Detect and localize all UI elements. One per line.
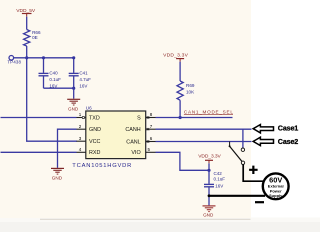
svg-text:TXD: TXD — [89, 115, 100, 121]
pin 1 TXD stub — [77, 117, 86, 119]
power port VDD_5V — [16, 8, 36, 17]
pin 7 CANH stub — [146, 128, 156, 130]
svg-text:Case2: Case2 — [278, 137, 299, 146]
svg-text:TCAN1051HGVDR: TCAN1051HGVDR — [72, 163, 131, 169]
wire TXD to left edge — [1, 117, 77, 119]
plus symbol — [249, 166, 258, 174]
arrow Case1 — [253, 125, 273, 133]
svg-text:16V: 16V — [215, 184, 223, 189]
svg-text:VDD_3.3V: VDD_3.3V — [163, 53, 189, 59]
svg-text:16V: 16V — [79, 83, 87, 88]
svg-text:10K: 10K — [186, 89, 195, 94]
wire R69 to S wire — [179, 100, 181, 117]
wire VDD_3.3V to R69 — [179, 62, 181, 81]
svg-text:C42: C42 — [214, 171, 223, 176]
svg-text:Case1: Case1 — [278, 124, 299, 133]
resistor R69 — [177, 81, 195, 100]
svg-text:C41: C41 — [79, 70, 88, 75]
svg-text:C40: C40 — [49, 70, 58, 75]
wire VDD_3.3V down to C42 — [208, 163, 210, 184]
wire cap bottom rail — [44, 87, 74, 89]
capacitor C41 — [69, 58, 91, 89]
svg-text:CANL: CANL — [126, 139, 140, 145]
pin 3 VCC stub — [77, 140, 86, 142]
svg-text:0.1uF: 0.1uF — [214, 176, 226, 181]
ground GND below pin2 — [51, 168, 64, 180]
pin 4 RXD stub — [77, 151, 86, 153]
wire VDD_5V to R66 — [26, 17, 28, 30]
net label CAN1_MODE_SEL — [184, 110, 233, 115]
pin names — [89, 115, 141, 156]
svg-text:GND: GND — [203, 212, 214, 217]
svg-text:0.1uF: 0.1uF — [49, 77, 61, 82]
minus symbol — [255, 201, 264, 203]
svg-text:VIO: VIO — [131, 150, 140, 156]
wire TP438 to caps — [14, 57, 74, 59]
wire VIO to VDD_3.3V — [156, 152, 210, 170]
svg-text:U6: U6 — [86, 106, 92, 111]
wire GND pin2 — [58, 129, 77, 168]
wire CANH — [156, 128, 252, 130]
svg-text:CAN1_MODE_SEL: CAN1_MODE_SEL — [184, 110, 233, 115]
IC U6 CAN transceiver TCAN1051 — [72, 106, 145, 169]
junction on TP438 wire — [25, 56, 28, 59]
svg-text:GND: GND — [89, 127, 101, 133]
junction VIO/VDD — [207, 169, 210, 172]
wire supply minus to GND net — [209, 195, 265, 197]
junction dots caps — [42, 56, 45, 59]
switch pole stub from CANL — [229, 142, 231, 146]
svg-text:GND: GND — [68, 106, 79, 111]
switch blade — [230, 146, 242, 161]
svg-text:RXD: RXD — [89, 150, 100, 156]
test point TP438 — [8, 56, 22, 65]
junction R69/S — [179, 116, 182, 119]
svg-text:0E: 0E — [32, 35, 38, 40]
wire C41 to ground — [73, 88, 75, 99]
switch contact (supply side) — [241, 161, 244, 164]
wire CANL — [156, 141, 252, 143]
svg-text:VCC: VCC — [89, 139, 100, 145]
capacitor C40 — [39, 58, 62, 89]
pin 8 S stub — [146, 117, 156, 119]
pin 6 CANL stub — [146, 141, 156, 143]
wire CANH to switch contact — [242, 129, 244, 148]
pin 2 GND stub — [77, 128, 86, 130]
power port VDD_3.3V (top) — [163, 53, 189, 62]
60V external power supply — [263, 173, 289, 199]
wire R66 down to VCC pin3 corner — [27, 46, 77, 141]
power port VDD_3.3V (bottom) — [198, 154, 221, 164]
wire switch to supply plus — [243, 165, 264, 182]
capacitor C42 — [204, 171, 225, 206]
wire S net — [156, 117, 233, 119]
svg-text:Supply: Supply — [269, 193, 283, 198]
resistor R66 — [24, 30, 41, 47]
ground GND below C42 — [203, 206, 216, 217]
wire RXD to left edge — [1, 151, 77, 153]
arrow Case2 — [253, 137, 273, 145]
svg-text:R69: R69 — [186, 83, 195, 88]
svg-text:TP438: TP438 — [8, 60, 22, 65]
pin 5 VIO stub — [146, 151, 156, 153]
svg-text:4.7uF: 4.7uF — [79, 77, 91, 82]
svg-text:CANH: CANH — [125, 127, 140, 133]
svg-text:VDD_3.3V: VDD_3.3V — [198, 154, 221, 160]
svg-text:S: S — [137, 115, 141, 121]
ground GND below C41 — [67, 99, 80, 111]
svg-text:GND: GND — [52, 176, 63, 181]
switch contact (CANH side) — [241, 148, 244, 151]
